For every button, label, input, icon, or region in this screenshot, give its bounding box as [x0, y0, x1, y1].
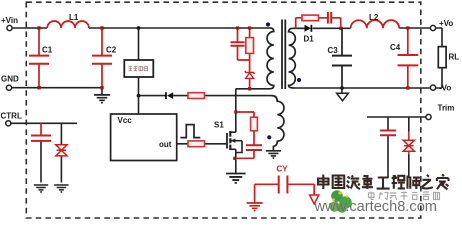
wire ctrl zener leads	[60, 123, 62, 182]
wire Trim	[367, 116, 426, 118]
pulse waveform symbol	[180, 125, 200, 138]
ground under C2	[94, 95, 110, 103]
clamp RC on primary: resistor	[238, 28, 250, 72]
terminal GND	[6, 85, 11, 90]
snubber across S1: capacitor	[246, 145, 262, 150]
wire out-gate	[177, 143, 227, 145]
diode D1	[305, 25, 312, 32]
svg-text:CY: CY	[277, 165, 289, 174]
polarity dot aux	[267, 135, 271, 139]
output ground (open triangle)	[341, 88, 343, 93]
terminal -Vo	[430, 85, 435, 90]
dashed module boundary	[26, 2, 421, 218]
clamp RC on primary: capacitor	[237, 28, 239, 60]
snubber across D1	[296, 18, 341, 29]
svg-text:out: out	[159, 140, 172, 149]
polarity dot secondary	[297, 78, 301, 82]
wire -Vo rail	[294, 68, 442, 88]
zener TVS on CTRL	[56, 145, 67, 156]
node aux-feed junction	[137, 94, 141, 98]
wire Vcc drop	[138, 28, 140, 114]
svg-text:RL: RL	[449, 53, 460, 62]
resistor RL	[438, 47, 446, 68]
watermark logo	[329, 190, 351, 213]
inductor L1	[47, 21, 89, 28]
wire GND rail	[12, 88, 103, 95]
ground under aux winding	[266, 151, 281, 158]
transformer aux winding	[272, 96, 284, 151]
svg-text:+Vo: +Vo	[439, 19, 453, 28]
capacitor C4	[407, 28, 409, 88]
snubber across S1: resistor	[236, 112, 254, 145]
clamp zener	[245, 71, 254, 79]
polarity dot primary	[266, 22, 270, 26]
ground under S1 source	[226, 174, 246, 183]
capacitor C2	[101, 28, 103, 88]
wire aux feed	[139, 95, 272, 97]
node Vcc-rail junction	[137, 26, 141, 30]
svg-text:-Vo: -Vo	[439, 83, 451, 92]
svg-text:L2: L2	[369, 13, 379, 22]
transformer secondary winding	[289, 28, 296, 88]
watermark CJK line2	[369, 192, 440, 201]
watermark CJK line1	[318, 175, 449, 190]
svg-text:Trim: Trim	[438, 104, 455, 113]
svg-text:C4: C4	[390, 43, 401, 52]
svg-text:GND: GND	[1, 75, 19, 84]
svg-text:+Vin: +Vin	[1, 16, 18, 25]
wire +Vo rail	[399, 28, 442, 47]
svg-text:www.cartech8.com: www.cartech8.com	[314, 199, 437, 215]
transformer core	[282, 20, 285, 90]
gate resistor	[188, 141, 205, 147]
wire ctrl cap lower lead	[40, 142, 42, 183]
ground under CTRL zener	[54, 185, 68, 192]
arrow termination CY right	[310, 195, 319, 204]
node junctions on rails	[37, 26, 40, 29]
svg-text:C2: C2	[106, 46, 117, 55]
capacitor on CTRL	[40, 123, 42, 135]
svg-text:L1: L1	[69, 13, 79, 22]
capacitor C1	[38, 28, 40, 88]
inductor L2	[351, 20, 400, 28]
svg-text:S1: S1	[214, 121, 224, 130]
svg-text:Vcc: Vcc	[118, 116, 133, 125]
control IC box Vcc/out	[111, 114, 177, 161]
wire trim cap leads	[387, 117, 389, 178]
terminal +Vin	[7, 25, 12, 30]
svg-text:D1: D1	[304, 35, 315, 44]
terminal +Vo	[430, 25, 435, 30]
svg-text:C3: C3	[328, 46, 339, 55]
svg-text:C1: C1	[42, 46, 53, 55]
transformer primary winding	[267, 28, 274, 89]
wire trim zener leads	[408, 117, 410, 178]
svg-text:CTRL: CTRL	[1, 112, 22, 121]
zener TVS on Trim	[403, 132, 414, 155]
resistor (aux feed)	[188, 93, 205, 99]
ground under CTRL cap	[34, 185, 48, 192]
capacitor C3	[341, 28, 343, 88]
terminal Trim	[426, 114, 431, 119]
capacitor on Trim	[380, 131, 396, 136]
ground (red) under CY left	[247, 203, 263, 211]
wire CTRL	[11, 122, 77, 124]
diode feeding Vcc	[167, 92, 173, 99]
wire drain link	[236, 89, 270, 132]
wire secondary top	[294, 27, 351, 29]
terminal CTRL	[6, 121, 11, 126]
wire +Vin rail	[12, 27, 270, 29]
startup block 启动电路	[124, 60, 153, 77]
